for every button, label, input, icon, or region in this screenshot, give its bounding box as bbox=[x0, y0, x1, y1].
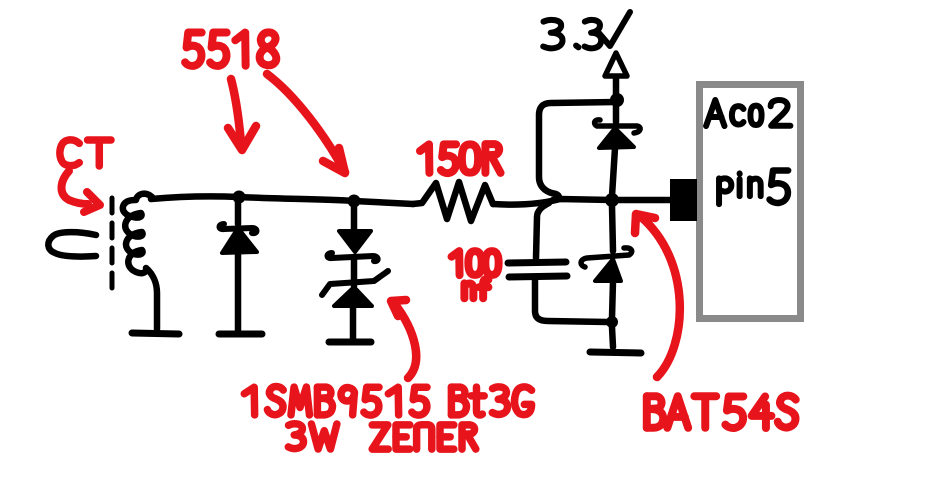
arrow: label -> zener bbox=[394, 303, 416, 378]
ground (D1) bbox=[219, 331, 262, 338]
label ACO2 bbox=[706, 100, 790, 126]
transformer core dashed line bbox=[110, 198, 115, 290]
node: pin5 net junction bbox=[605, 193, 619, 207]
resistor R1 150R zigzag bbox=[413, 182, 493, 221]
zener Z1 1SMB9515 bbox=[322, 271, 388, 295]
arrow: CT -> core bbox=[61, 171, 88, 204]
label 3W ZENER (red) bbox=[288, 424, 337, 449]
transformer secondary coil bbox=[123, 194, 157, 329]
arrow: 5518 -> D2 bbox=[267, 74, 345, 172]
label 150R (red) bbox=[420, 144, 501, 173]
ground (coil) bbox=[132, 333, 179, 334]
capacitor C1 bottom lead to junction bbox=[535, 278, 607, 322]
label 5518 (red) bbox=[185, 32, 276, 66]
label BAT54S (red) bbox=[647, 396, 796, 428]
pad: pin5 connection square bbox=[670, 179, 697, 221]
3.3V supply arrow bbox=[605, 53, 627, 76]
capacitor C1 plates bbox=[508, 262, 566, 263]
diode D1 SS18 bbox=[233, 191, 246, 204]
capacitor C1 100nf : top lead bbox=[536, 203, 549, 258]
node: cap/diode ground-side junction bbox=[606, 316, 618, 328]
label 3.3V bbox=[543, 20, 601, 48]
label CT (red) bbox=[60, 140, 111, 166]
IC box U1 ACO2 bbox=[700, 85, 801, 319]
wire: 3.3V rail loop to left bbox=[539, 102, 616, 200]
arrow: 5518 -> D1 bbox=[231, 79, 241, 143]
diode D2 SS18 (top of zener stack) bbox=[348, 195, 361, 208]
diode D3 BAT54S upper bbox=[613, 106, 620, 122]
arrow: BAT54S -> node bbox=[640, 216, 680, 377]
transformer T1 CT: primary bracket bbox=[48, 232, 96, 256]
wire: main horizontal net from CT to pin5 pad bbox=[151, 196, 413, 204]
ground (zener) bbox=[329, 339, 371, 346]
node: 3.3V junction bbox=[610, 93, 624, 107]
ground (BAT54S) bbox=[590, 352, 641, 353]
diode D4 BAT54S lower bbox=[612, 206, 613, 251]
label 100 nf (red) bbox=[452, 251, 499, 275]
label pin5 bbox=[719, 173, 761, 204]
wire: resistor to pad bbox=[493, 199, 672, 205]
label 1SMB9515 BT3G (red) bbox=[244, 387, 427, 416]
